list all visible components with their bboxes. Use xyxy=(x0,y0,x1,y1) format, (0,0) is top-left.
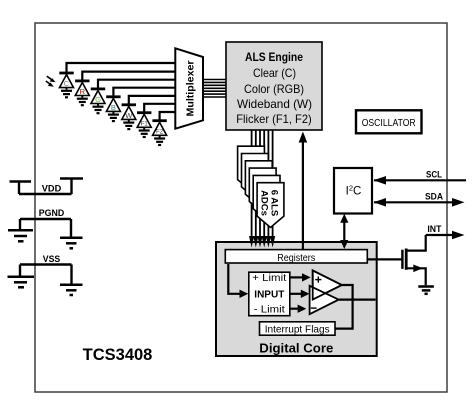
svg-text:W: W xyxy=(125,111,133,120)
arrow registers to ALS engine xyxy=(302,140,304,250)
wire to multiplexer xyxy=(98,80,176,88)
ground xyxy=(61,91,72,98)
registers box xyxy=(225,250,367,263)
photodiode F1 xyxy=(137,104,176,137)
svg-text:INT: INT xyxy=(427,224,441,235)
ground xyxy=(93,107,104,114)
wire to multiplexer xyxy=(144,104,176,112)
svg-text:Clear (C): Clear (C) xyxy=(253,66,296,80)
arrowheads bus into registers xyxy=(249,236,275,248)
wire to multiplexer xyxy=(82,72,176,80)
wire PGND lead xyxy=(20,218,71,220)
pin VDD xyxy=(10,179,84,195)
wire to multiplexer xyxy=(129,96,176,104)
ADC stack (6 ALS ADCs) xyxy=(238,146,284,227)
wire SDA xyxy=(374,201,453,203)
Q1 channel bar xyxy=(405,249,408,270)
INPUT box xyxy=(249,272,290,316)
diode triangle xyxy=(122,106,136,119)
light arrows xyxy=(46,76,52,84)
comparator upper outline redraw xyxy=(313,270,342,299)
photodiode C xyxy=(59,63,176,97)
svg-text:6 ALSADCs: 6 ALSADCs xyxy=(259,190,280,217)
oscillator block xyxy=(356,110,422,133)
wire source lead xyxy=(406,268,426,285)
wire registers to INPUT xyxy=(228,264,240,294)
multiplexer xyxy=(175,48,203,128)
VDD terminal outside xyxy=(18,183,20,195)
wire VDD lead xyxy=(19,193,72,195)
svg-text:Interrupt Flags: Interrupt Flags xyxy=(265,323,330,335)
svg-text:VSS: VSS xyxy=(43,254,61,265)
svg-text:TCS3408: TCS3408 xyxy=(83,346,153,364)
svg-text:VDD: VDD xyxy=(42,184,62,195)
ground xyxy=(139,131,150,138)
wire VSS lead xyxy=(20,263,72,265)
ground (PGND right) xyxy=(60,238,83,249)
ground xyxy=(123,123,134,130)
svg-text:PGND: PGND xyxy=(39,208,65,219)
transistor Q1 (NMOS open-drain INT driver) xyxy=(368,235,426,285)
ground (Q1 source) xyxy=(418,287,434,294)
interrupt flags box xyxy=(260,322,336,335)
svg-text:OSCILLATOR: OSCILLATOR xyxy=(362,117,416,129)
svg-text:F2: F2 xyxy=(156,129,164,136)
pin VSS xyxy=(20,265,72,284)
svg-text:ALS Engine: ALS Engine xyxy=(245,50,303,64)
bus ALS engine to ADC to registers (6 wires) xyxy=(252,130,273,238)
svg-text:INPUT: INPUT xyxy=(254,290,284,301)
wire to multiplexer xyxy=(113,88,176,96)
arrows INPUT to comparators xyxy=(290,277,303,308)
bus mux to ALS engine (7 wires) xyxy=(203,80,226,98)
photodiode W xyxy=(122,96,176,129)
svg-text:Registers: Registers xyxy=(277,252,315,264)
wire VSS right drop xyxy=(70,265,72,284)
diode triangle xyxy=(106,98,120,111)
svg-text:G: G xyxy=(95,95,101,104)
diode triangle xyxy=(137,114,151,127)
diode triangle xyxy=(153,122,167,135)
double arrow I2C to registers xyxy=(343,219,345,244)
svg-text:SCL: SCL xyxy=(426,170,442,181)
svg-text:I2C: I2C xyxy=(346,184,362,198)
ground xyxy=(77,99,88,106)
ALS Engine block xyxy=(226,42,322,130)
wire xyxy=(67,63,177,72)
svg-text:+ Limit: + Limit xyxy=(252,273,286,284)
diode triangle xyxy=(91,91,105,104)
wire INT xyxy=(426,234,453,236)
wire VSS left drop xyxy=(19,265,21,276)
digital core xyxy=(216,242,377,356)
ground xyxy=(154,139,165,146)
wire PGND left drop xyxy=(19,219,21,229)
ground (VSS right) xyxy=(60,285,83,295)
svg-text:Color (RGB): Color (RGB) xyxy=(244,82,304,96)
comparator lower xyxy=(310,286,339,314)
svg-text:- Limit: - Limit xyxy=(254,304,285,315)
svg-text:Digital Core: Digital Core xyxy=(259,342,333,356)
svg-text:Multiplexer: Multiplexer xyxy=(184,61,196,117)
I2C block xyxy=(334,168,372,214)
wire drain lead xyxy=(406,235,426,251)
ground xyxy=(108,115,119,122)
svg-text:R: R xyxy=(80,87,86,96)
photodiode G xyxy=(91,80,176,114)
wire PGND right drop xyxy=(70,219,72,237)
wire lower comparator output xyxy=(339,299,376,301)
diode triangle xyxy=(60,75,74,88)
svg-text:C: C xyxy=(64,79,70,88)
svg-text:B: B xyxy=(111,103,116,112)
photodiode F2 xyxy=(152,112,176,145)
svg-text:SDA: SDA xyxy=(425,192,443,203)
photodiode B xyxy=(106,88,176,121)
Q1 gate bar xyxy=(401,250,403,269)
svg-text:F1: F1 xyxy=(141,121,149,128)
svg-text:Flicker (F1, F2): Flicker (F1, F2) xyxy=(236,112,312,126)
wire gate lead from Registers xyxy=(368,258,403,260)
wire to multiplexer xyxy=(160,112,176,120)
photodiode R xyxy=(75,72,176,106)
pin PGND xyxy=(20,219,71,237)
ground (VSS left) xyxy=(8,277,35,288)
wire upper comparator to interrupt flags xyxy=(336,285,353,329)
VDD terminal inside xyxy=(70,180,72,195)
wire SCL xyxy=(374,179,466,181)
ground (PGND left) xyxy=(8,230,33,241)
svg-text:Wideband (W): Wideband (W) xyxy=(237,97,312,111)
chip outline xyxy=(35,23,447,392)
comparator upper xyxy=(313,270,342,299)
diode triangle xyxy=(75,83,89,96)
